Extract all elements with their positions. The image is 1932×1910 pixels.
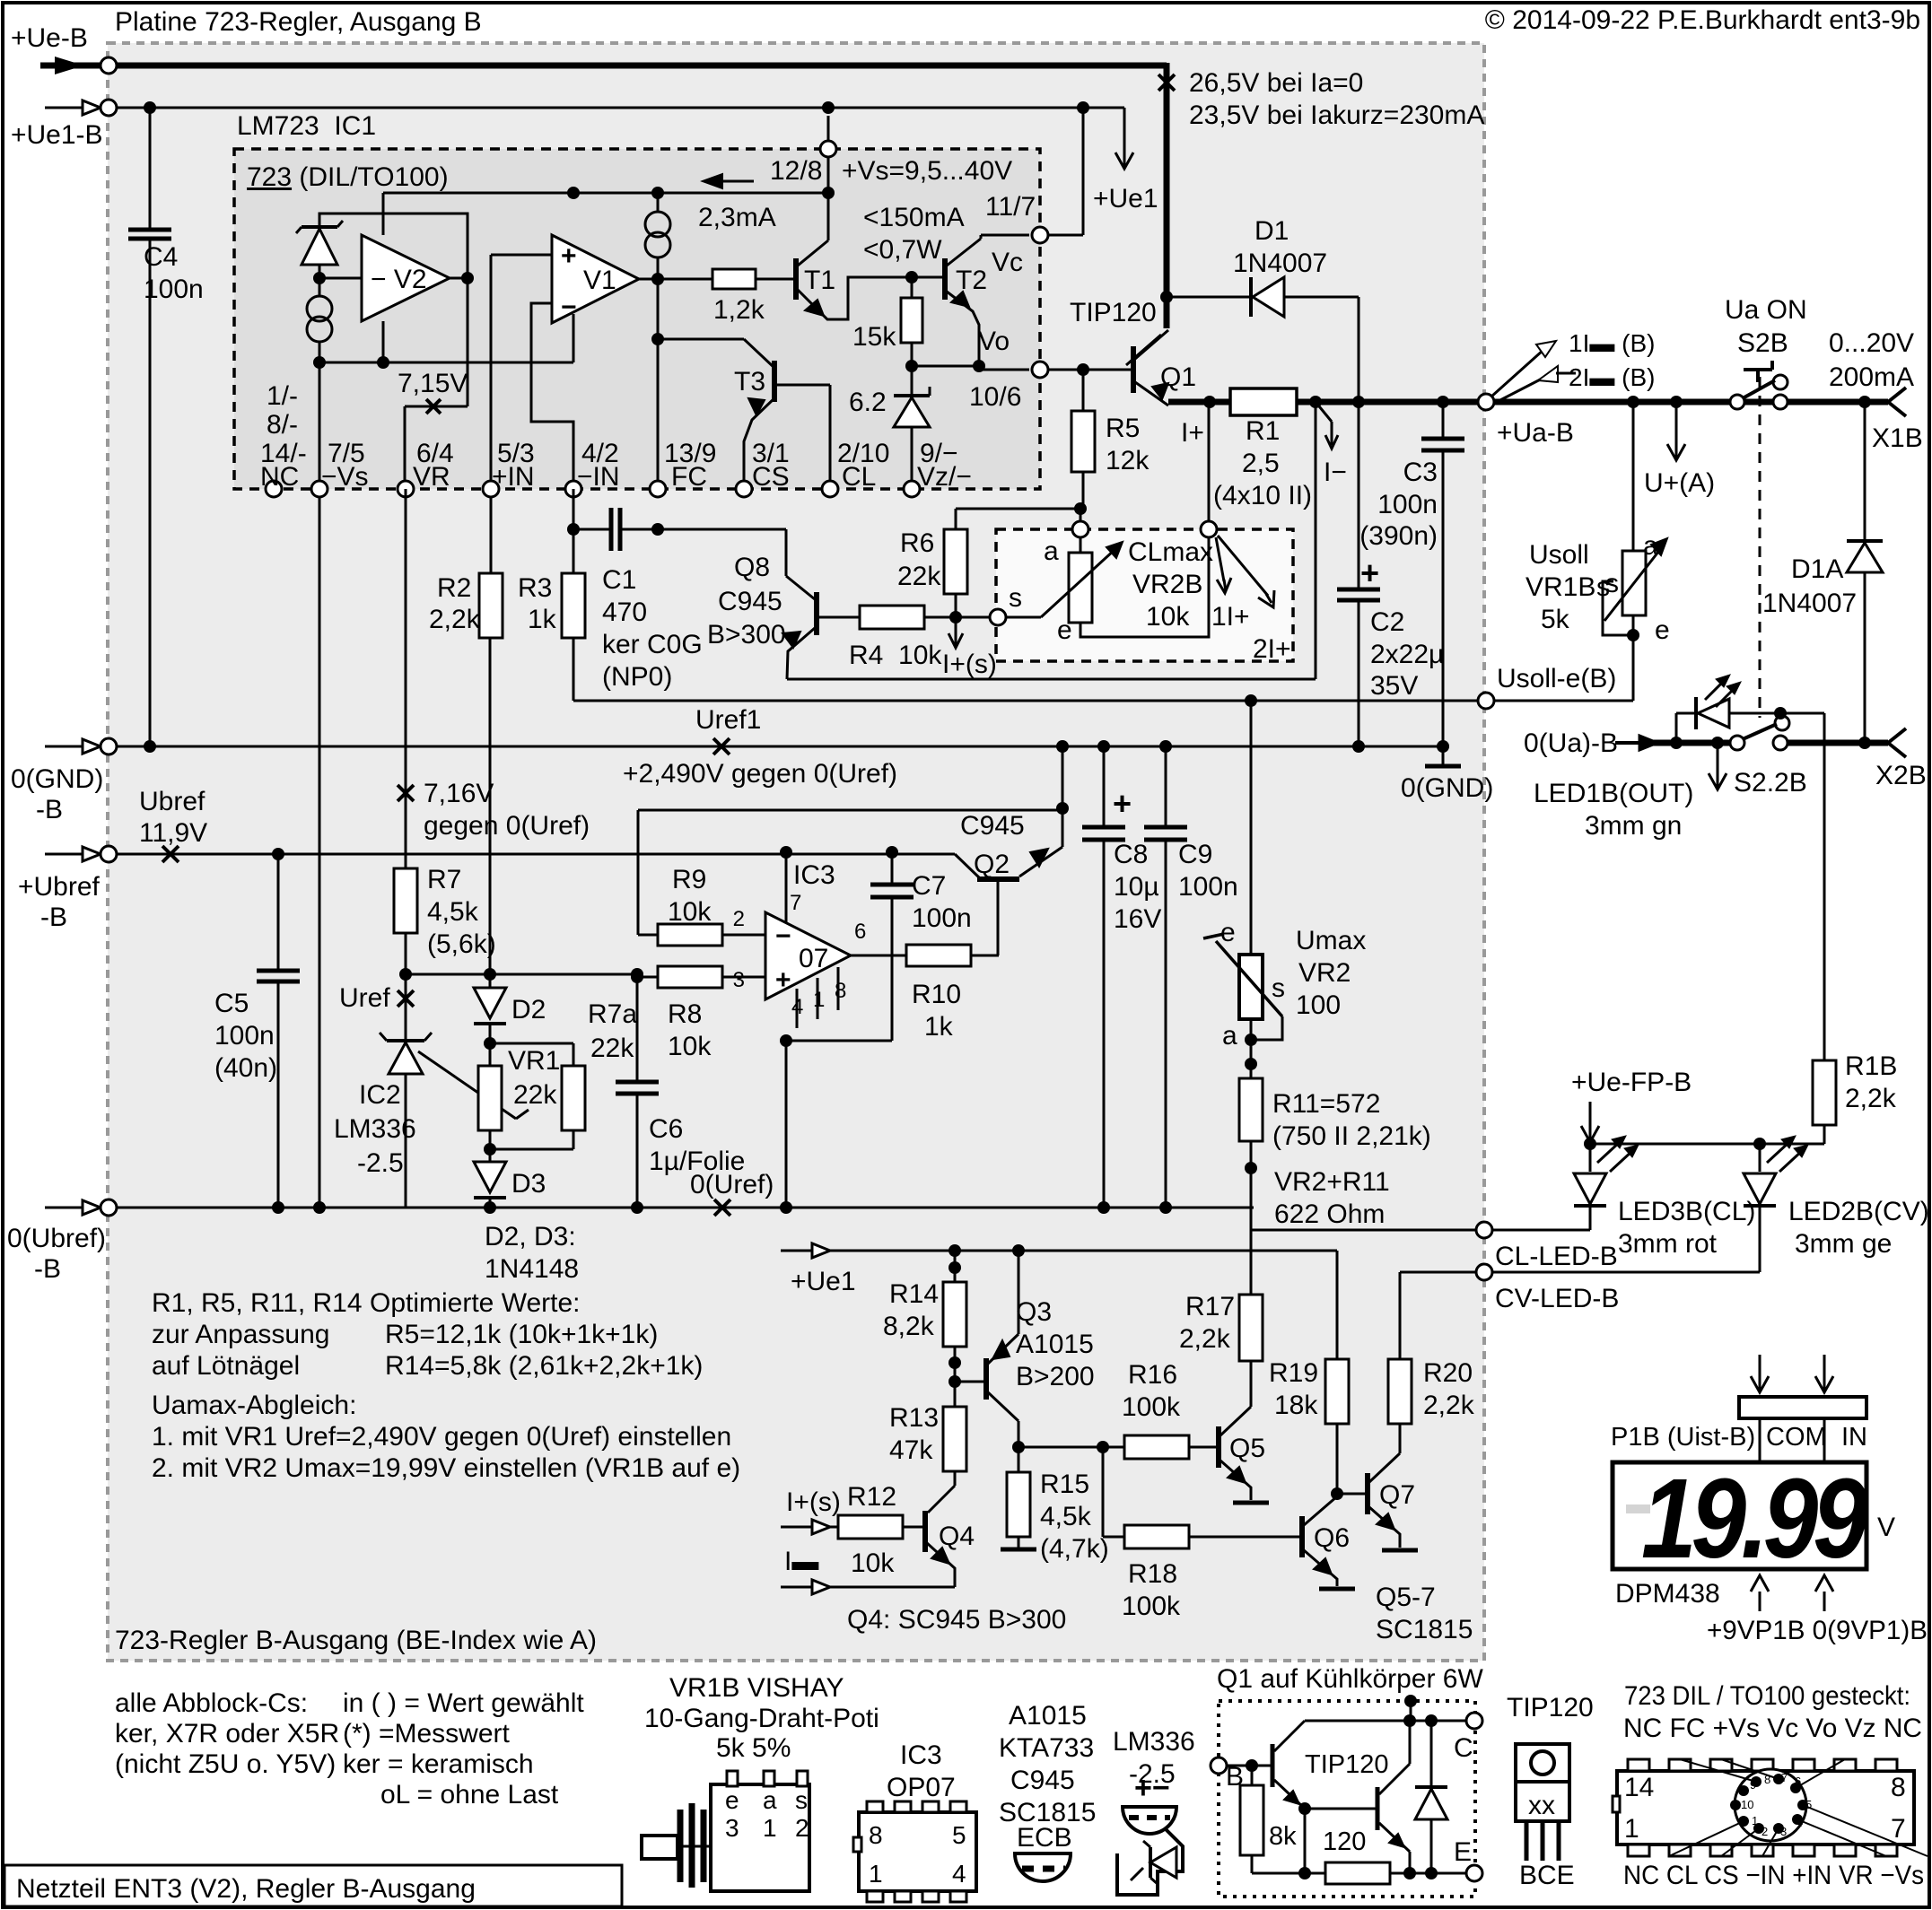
svg-text:0(Ubref): 0(Ubref) — [7, 1224, 106, 1253]
svg-text:R6: R6 — [900, 528, 934, 558]
svg-text:Q4: Q4 — [939, 1522, 975, 1551]
title box — [4, 1865, 622, 1906]
resistor R9 10k — [638, 934, 658, 937]
svg-text:12k: 12k — [1106, 446, 1150, 475]
svg-text:ECB: ECB — [1017, 1823, 1072, 1853]
wire +Vs rail inside 723 — [383, 192, 828, 195]
svg-text:19.99: 19.99 — [1641, 1456, 1868, 1582]
svg-text:Q5-7: Q5-7 — [1376, 1583, 1436, 1612]
svg-text:0(GND): 0(GND) — [1401, 773, 1493, 803]
trimmer VR1 22k — [478, 1066, 502, 1130]
svg-text:100n: 100n — [214, 1021, 275, 1051]
svg-text:R5: R5 — [1106, 414, 1140, 443]
transistor Q4 SC945 — [922, 1511, 928, 1552]
arrow I- — [1316, 402, 1332, 422]
svg-text:ker C0G: ker C0G — [602, 630, 703, 659]
terminal Usoll-e(B) — [1478, 693, 1494, 709]
potentiometer Usoll VR1B 5k — [1632, 402, 1635, 551]
pin Vc 11/7 — [1032, 227, 1048, 243]
resistor R17 2,2k — [1250, 1230, 1253, 1295]
svg-text:LM336: LM336 — [334, 1114, 416, 1144]
node 7,16V — [398, 785, 414, 801]
diode D1A 1N4007 — [1847, 543, 1883, 572]
svg-text:R14=5,8k (2,61k+2,2k+1k): R14=5,8k (2,61k+2,2k+1k) — [385, 1351, 703, 1381]
svg-text:BCE: BCE — [1519, 1861, 1575, 1890]
svg-text:8: 8 — [835, 979, 846, 1003]
svg-text:2,2k: 2,2k — [1845, 1084, 1897, 1113]
LED LED3B(CL) 3mm rot — [1589, 1144, 1592, 1172]
TO-92 drawing ECB — [1015, 1853, 1071, 1881]
pin Vo 10/6 — [1032, 362, 1048, 378]
svg-text:470: 470 — [602, 597, 647, 627]
svg-text:+Ubref: +Ubref — [18, 872, 101, 902]
svg-text:Vc: Vc — [992, 248, 1023, 277]
svg-text:100k: 100k — [1122, 1592, 1181, 1621]
terminal +Ua-B — [1478, 394, 1494, 410]
svg-text:-2.5: -2.5 — [357, 1148, 404, 1178]
wire CL-LED line — [1250, 1208, 1253, 1230]
svg-text:200mA: 200mA — [1829, 362, 1914, 392]
svg-text:C2: C2 — [1370, 607, 1404, 637]
svg-text:2: 2 — [795, 1814, 809, 1842]
wire V1 +in — [491, 254, 552, 257]
wire +Ue-FP row — [1590, 1143, 1824, 1146]
svg-text:(NP0): (NP0) — [602, 662, 672, 692]
arrows meter supply — [1759, 1592, 1762, 1611]
svg-text:+: + — [561, 241, 577, 271]
svg-text:3: 3 — [725, 1814, 739, 1842]
svg-text:auf Lötnägel: auf Lötnägel — [152, 1351, 300, 1381]
svg-text:(*) =Messwert: (*) =Messwert — [343, 1719, 511, 1749]
svg-text:VR2+R11: VR2+R11 — [1274, 1167, 1390, 1197]
capacitor C6 1u Folie — [636, 974, 639, 1082]
diode D3 1N4148 — [489, 1130, 492, 1162]
svg-text:12/8: 12/8 — [770, 156, 822, 186]
resistor R10 1k — [906, 945, 971, 966]
svg-text:10k: 10k — [668, 1032, 712, 1061]
svg-text:10: 10 — [1741, 1798, 1753, 1811]
svg-text:TIP120: TIP120 — [1305, 1750, 1389, 1779]
wire output rail thick — [1168, 399, 1230, 406]
svg-text:-B: -B — [40, 903, 67, 932]
heatsink box — [1219, 1701, 1475, 1897]
svg-text:C7: C7 — [912, 871, 946, 901]
arrows meter inputs — [1759, 1355, 1762, 1378]
svg-text:3mm gn: 3mm gn — [1585, 811, 1682, 841]
wire R1B net down — [1823, 743, 1826, 1060]
svg-text:ker = keramisch: ker = keramisch — [343, 1749, 534, 1779]
svg-text:8,2k: 8,2k — [883, 1312, 935, 1341]
svg-text:2. mit VR2 Umax=19,99V einstel: 2. mit VR2 Umax=19,99V einstellen (VR1B … — [152, 1453, 740, 1483]
resistor R8 10k — [637, 976, 658, 979]
svg-text:IN: IN — [1841, 1423, 1867, 1452]
wire Q3 collector row — [1018, 1446, 1103, 1449]
transistor TIP120 T2 — [1376, 1787, 1380, 1830]
svg-text:X2B: X2B — [1875, 761, 1927, 790]
svg-text:Umax: Umax — [1296, 926, 1366, 955]
connector X1B — [1888, 388, 1906, 402]
svg-text:+Ua-B: +Ua-B — [1497, 418, 1574, 448]
resistor 1,2k — [712, 269, 756, 289]
svg-text:+9VP1B 0(9VP1)B: +9VP1B 0(9VP1)B — [1707, 1616, 1928, 1645]
svg-text:KTA733: KTA733 — [999, 1733, 1094, 1763]
transistor Q7 — [1337, 1493, 1365, 1496]
svg-text:a: a — [1643, 531, 1658, 561]
svg-text:gegen 0(Uref): gegen 0(Uref) — [424, 811, 590, 841]
meter DPM438 display — [1613, 1462, 1866, 1569]
svg-text:2I▬ (B): 2I▬ (B) — [1569, 363, 1655, 391]
wire Umax net — [1245, 694, 1257, 707]
svg-text:11/7: 11/7 — [985, 192, 1036, 222]
wire 0(Ubref) line — [117, 1207, 1254, 1209]
svg-text:e: e — [1057, 615, 1072, 645]
resistor R1B 2,2k — [1813, 1060, 1836, 1125]
svg-text:Optimierte Werte:: Optimierte Werte: — [370, 1288, 581, 1318]
svg-text:1: 1 — [813, 988, 825, 1012]
connector X2B — [1888, 728, 1906, 743]
pin VR2B s — [990, 609, 1006, 625]
svg-text:-B: -B — [36, 795, 63, 824]
capacitor C4 — [149, 108, 152, 230]
arrows 1I+ 2I+ — [1216, 537, 1224, 581]
svg-text:723 (DIL/TO100): 723 (DIL/TO100) — [247, 162, 449, 192]
svg-text:2: 2 — [1762, 1825, 1768, 1838]
svg-text:4: 4 — [1796, 1816, 1803, 1829]
resistor R14 8,2k — [954, 1251, 957, 1282]
svg-text:TIP120: TIP120 — [1070, 298, 1157, 327]
wire +Ubref line — [117, 853, 955, 856]
svg-text:R14: R14 — [889, 1279, 939, 1309]
svg-text:+: + — [1113, 785, 1132, 822]
arrow current direction — [709, 180, 754, 183]
svg-text:VR2B: VR2B — [1132, 570, 1202, 599]
svg-text:1N4007: 1N4007 — [1233, 249, 1327, 278]
svg-text:26,5V bei Ia=0: 26,5V bei Ia=0 — [1189, 68, 1363, 98]
svg-text:oL = ohne Last: oL = ohne Last — [380, 1780, 559, 1810]
svg-text:ker, X7R oder X5R: ker, X7R oder X5R — [115, 1719, 339, 1749]
svg-text:R3: R3 — [518, 573, 552, 603]
terminal CV-LED-B — [1476, 1264, 1492, 1280]
resistor 120 — [1252, 1872, 1325, 1875]
PCB panel Platine 723-Regler — [108, 43, 1484, 1661]
svg-text:DPM438: DPM438 — [1615, 1579, 1720, 1609]
wire V1 -in — [531, 303, 573, 489]
arrow 0V ref — [1717, 743, 1719, 773]
svg-text:IC3: IC3 — [793, 860, 835, 890]
node Uref1 — [713, 738, 730, 754]
resistor R19 18k — [1336, 1251, 1339, 1359]
IC OP07 DIP8 drawing — [859, 1812, 976, 1891]
svg-text:S2B: S2B — [1737, 328, 1788, 358]
svg-text:+−: +− — [1134, 1771, 1170, 1805]
svg-text:8: 8 — [869, 1821, 883, 1849]
svg-text:3mm ge: 3mm ge — [1795, 1229, 1892, 1259]
wire IC3 V+ — [785, 852, 788, 922]
svg-text:2,5: 2,5 — [1242, 449, 1280, 478]
svg-text:Q6: Q6 — [1314, 1523, 1350, 1553]
wire 0(Ua) line — [1615, 741, 1647, 745]
svg-text:VR: VR — [413, 462, 450, 492]
arrow U+(A) — [1675, 402, 1678, 444]
wire R5 bottom to VR2B — [1074, 502, 1087, 515]
svg-text:s: s — [795, 1786, 808, 1814]
diode D2 1N4148 — [489, 977, 492, 988]
svg-text:LED2B(CV): LED2B(CV) — [1788, 1197, 1929, 1226]
resistor R6 22k — [944, 529, 967, 594]
svg-text:100n: 100n — [912, 903, 972, 933]
svg-text:8: 8 — [1891, 1773, 1906, 1802]
wire 120 base divider — [1304, 1809, 1307, 1873]
ground 0(GND) — [1442, 746, 1445, 764]
svg-text:R7a: R7a — [588, 999, 637, 1029]
svg-text:VR1B VISHAY: VR1B VISHAY — [669, 1673, 844, 1703]
svg-text:R1: R1 — [1246, 416, 1280, 446]
svg-text:18k: 18k — [1274, 1391, 1318, 1420]
svg-text:a: a — [763, 1786, 777, 1814]
VR2B CLmax box — [996, 529, 1293, 661]
svg-text:+2,490V gegen 0(Uref): +2,490V gegen 0(Uref) — [623, 759, 897, 789]
svg-text:11,9V: 11,9V — [139, 818, 207, 848]
svg-text:IC2: IC2 — [359, 1080, 401, 1110]
resistor R5 12k — [1082, 370, 1085, 411]
wire V2 feedback — [319, 214, 468, 278]
resistor R15 4,5k — [1018, 1447, 1020, 1472]
transistor T2 — [942, 258, 948, 300]
svg-text:s: s — [1272, 973, 1285, 1003]
wire +Ue-B down to Q1 — [1164, 63, 1170, 328]
capacitor C5 100n — [272, 848, 284, 860]
svg-text:5k: 5k — [1541, 605, 1570, 634]
reference IC2 LM336 -2.5 — [389, 1042, 423, 1074]
svg-text:C4: C4 — [144, 242, 178, 272]
resistor R20 2,2k — [1399, 1272, 1402, 1359]
svg-text:+IN: +IN — [492, 462, 535, 492]
wire feedback top — [638, 809, 1062, 812]
svg-text:5k 5%: 5k 5% — [716, 1733, 791, 1763]
diode in TIP120 — [1430, 1721, 1433, 1787]
svg-text:CL-LED-B: CL-LED-B — [1495, 1242, 1618, 1271]
svg-text:7: 7 — [1891, 1814, 1906, 1844]
svg-text:IC3: IC3 — [900, 1740, 942, 1770]
svg-text:LED1B(OUT): LED1B(OUT) — [1534, 779, 1693, 808]
svg-text:R11=572: R11=572 — [1272, 1089, 1380, 1119]
wire CL bottom — [787, 678, 1316, 681]
capacitor C2 2x22u — [1358, 402, 1360, 589]
svg-text:(4,7k): (4,7k) — [1040, 1534, 1109, 1564]
resistor R7 4,5k — [405, 489, 407, 868]
svg-text:s: s — [1009, 583, 1022, 613]
svg-text:6.2: 6.2 — [849, 388, 887, 417]
svg-text:−: − — [775, 921, 791, 951]
svg-text:© 2014-09-22 P.E.Burkhardt ent: © 2014-09-22 P.E.Burkhardt ent3-9b — [1485, 5, 1920, 35]
svg-text:R1, R5, R11, R14: R1, R5, R11, R14 — [152, 1288, 363, 1318]
diode D1 1N4007 — [1160, 291, 1173, 303]
svg-text:R9: R9 — [672, 865, 706, 894]
svg-text:C9: C9 — [1178, 840, 1212, 869]
svg-text:7,15V: 7,15V — [398, 369, 468, 398]
svg-text:a: a — [1044, 536, 1059, 566]
svg-text:a: a — [1222, 1021, 1237, 1051]
svg-text:22k: 22k — [590, 1033, 634, 1063]
wire T1 emitter to T2 base — [1298, 1802, 1311, 1815]
svg-text:(750 II 2,21k): (750 II 2,21k) — [1272, 1121, 1431, 1151]
wire rail branch down x1466 — [1315, 402, 1317, 679]
svg-text:xx: xx — [1528, 1791, 1555, 1820]
svg-text:VR2: VR2 — [1298, 958, 1351, 988]
svg-text:1N4148: 1N4148 — [485, 1254, 579, 1284]
arrows 1I- 2I- — [1491, 350, 1543, 397]
svg-text:NC FC +Vs Vc Vo Vz NC: NC FC +Vs Vc Vo Vz NC — [1623, 1714, 1922, 1743]
723 IC internal box — [234, 149, 1040, 489]
wire V2 out — [461, 272, 474, 284]
svg-text:C: C — [1454, 1733, 1473, 1763]
svg-text:<0,7W: <0,7W — [863, 235, 942, 265]
svg-text:R7: R7 — [427, 865, 461, 894]
terminal CL-LED-B — [1476, 1222, 1492, 1238]
svg-text:R19: R19 — [1269, 1358, 1318, 1388]
svg-text:1N4007: 1N4007 — [1762, 589, 1857, 618]
svg-text:E: E — [1454, 1837, 1472, 1867]
wire +Ue1-B line — [117, 107, 1124, 109]
svg-text:NC: NC — [260, 462, 299, 492]
svg-text:+Ue-B: +Ue-B — [11, 23, 88, 53]
svg-text:10k: 10k — [1146, 602, 1190, 632]
wire IC3 pins bottom — [796, 989, 799, 1028]
svg-text:1/-: 1/- — [267, 381, 298, 411]
current source V1 — [645, 212, 670, 237]
svg-text:C945: C945 — [960, 811, 1025, 841]
svg-text:Vo: Vo — [978, 327, 1010, 356]
svg-text:Q1 auf Kühlkörper 6W: Q1 auf Kühlkörper 6W — [1217, 1664, 1483, 1694]
resistor 8k — [1251, 1766, 1254, 1785]
mech link dashed — [1759, 377, 1762, 718]
svg-text:+: + — [1360, 554, 1379, 591]
LED LED2B(CV) 3mm ge — [1759, 1144, 1762, 1172]
svg-text:R10: R10 — [912, 980, 961, 1009]
resistor R1 2,5 — [1230, 388, 1297, 415]
svg-text:e: e — [1220, 918, 1236, 947]
wire B input — [1227, 1765, 1272, 1767]
svg-text:R16: R16 — [1128, 1360, 1177, 1390]
resistor R12 10k — [838, 1515, 903, 1539]
svg-text:2: 2 — [733, 907, 745, 931]
svg-text:+Ue1: +Ue1 — [791, 1267, 856, 1296]
svg-text:D2: D2 — [511, 995, 546, 1025]
svg-text:Usoll-e(B): Usoll-e(B) — [1497, 664, 1616, 693]
svg-text:R5=12,1k (10k+1k+1k): R5=12,1k (10k+1k+1k) — [385, 1320, 658, 1349]
svg-text:3: 3 — [1780, 1825, 1787, 1838]
svg-text:22k: 22k — [513, 1080, 557, 1110]
meter input block COM IN — [1739, 1397, 1866, 1418]
svg-text:0(Ua)-B: 0(Ua)-B — [1524, 728, 1618, 758]
svg-text:8/-: 8/- — [267, 410, 298, 440]
pin 12/8 +Vs — [827, 116, 830, 193]
svg-text:10/6: 10/6 — [969, 382, 1021, 412]
TO100 fan lines — [1680, 1759, 1756, 1782]
svg-text:1: 1 — [1624, 1814, 1639, 1844]
svg-text:Uamax-Abgleich:: Uamax-Abgleich: — [152, 1391, 356, 1420]
svg-text:14: 14 — [1624, 1773, 1654, 1802]
svg-text:s: s — [1605, 569, 1619, 598]
svg-text:CLmax: CLmax — [1128, 537, 1213, 567]
svg-text:1. mit VR1 Uref=2,490V gegen 0: 1. mit VR1 Uref=2,490V gegen 0(Uref) ein… — [152, 1422, 731, 1452]
svg-text:B>200: B>200 — [1016, 1362, 1095, 1391]
svg-text:7: 7 — [1781, 1771, 1788, 1784]
svg-text:(5,6k): (5,6k) — [427, 929, 496, 959]
svg-text:S2.2B: S2.2B — [1734, 768, 1807, 798]
svg-text:Uref1: Uref1 — [695, 705, 761, 735]
capacitor C8 10u 16V — [1097, 740, 1110, 753]
svg-text:120: 120 — [1323, 1827, 1366, 1856]
svg-text:7: 7 — [790, 891, 801, 915]
capacitor C7 100n — [891, 852, 894, 885]
svg-text:07: 07 — [799, 944, 828, 973]
svg-text:8k: 8k — [1269, 1822, 1297, 1851]
svg-text:I+: I+ — [1181, 418, 1204, 448]
svg-text:R4 10k: R4 10k — [849, 641, 942, 670]
capacitor C1 470 — [567, 523, 580, 536]
svg-text:0(GND): 0(GND) — [11, 764, 103, 794]
svg-text:P1B (Uist-B): P1B (Uist-B) — [1611, 1423, 1755, 1452]
svg-text:D3: D3 — [511, 1169, 546, 1199]
svg-text:Ua ON: Ua ON — [1725, 295, 1807, 325]
svg-text:622 Ohm: 622 Ohm — [1274, 1199, 1385, 1229]
svg-text:Q8: Q8 — [734, 553, 770, 582]
resistor parallel to VR1 — [490, 1042, 573, 1045]
svg-text:1: 1 — [1752, 1814, 1758, 1827]
wire Vo to Q1 base — [1048, 369, 1133, 371]
svg-text:Q3: Q3 — [1016, 1297, 1052, 1327]
svg-text:Q2: Q2 — [974, 850, 1010, 879]
svg-text:C945: C945 — [718, 587, 782, 616]
svg-text:Ubref: Ubref — [139, 787, 205, 816]
meter digits 19.99 — [1641, 1456, 1868, 1582]
svg-text:5: 5 — [952, 1821, 966, 1849]
svg-text:R1B: R1B — [1845, 1051, 1897, 1081]
op-amp V1 — [552, 235, 639, 323]
svg-text:+Vs=9,5...40V: +Vs=9,5...40V — [842, 156, 1012, 186]
svg-text:1: 1 — [869, 1860, 883, 1888]
LED LED1B(OUT) — [1675, 713, 1678, 743]
svg-text:in ( ) = Wert gewählt: in ( ) = Wert gewählt — [343, 1688, 584, 1718]
transistor Q6 — [1299, 1516, 1305, 1557]
svg-text:Vz/−: Vz/− — [917, 462, 972, 492]
pin VR2B I+ top — [1201, 521, 1217, 537]
transistor Q3 A1015 — [983, 1358, 989, 1400]
wire Vc to +Ue1 — [1048, 234, 1083, 237]
resistor R11 572 — [1239, 1078, 1263, 1141]
svg-text:2,2k: 2,2k — [429, 605, 481, 634]
wire Uref row — [406, 973, 637, 976]
svg-text:723 DIL / TO100 gesteckt:: 723 DIL / TO100 gesteckt: — [1624, 1681, 1910, 1711]
svg-text:R2: R2 — [437, 573, 471, 603]
svg-text:1: 1 — [763, 1814, 777, 1842]
svg-text:100n: 100n — [144, 275, 204, 304]
svg-text:(40n): (40n) — [214, 1053, 277, 1083]
svg-text:4: 4 — [952, 1860, 966, 1888]
resistor R13 47k — [954, 1400, 957, 1407]
svg-text:D1: D1 — [1254, 216, 1289, 246]
capacitor C3 100n — [1442, 402, 1445, 439]
svg-text:C3: C3 — [1403, 458, 1438, 487]
wire rail to X1B — [1494, 399, 1888, 406]
zener 6.2 — [894, 397, 930, 427]
wire +Ue-B rail — [117, 63, 1167, 69]
svg-text:1k: 1k — [924, 1012, 954, 1042]
trimmer Umax VR2 100 — [1250, 701, 1253, 955]
svg-text:Q4: SC945 B>300: Q4: SC945 B>300 — [847, 1605, 1066, 1635]
svg-text:(4x10 II): (4x10 II) — [1213, 481, 1312, 510]
